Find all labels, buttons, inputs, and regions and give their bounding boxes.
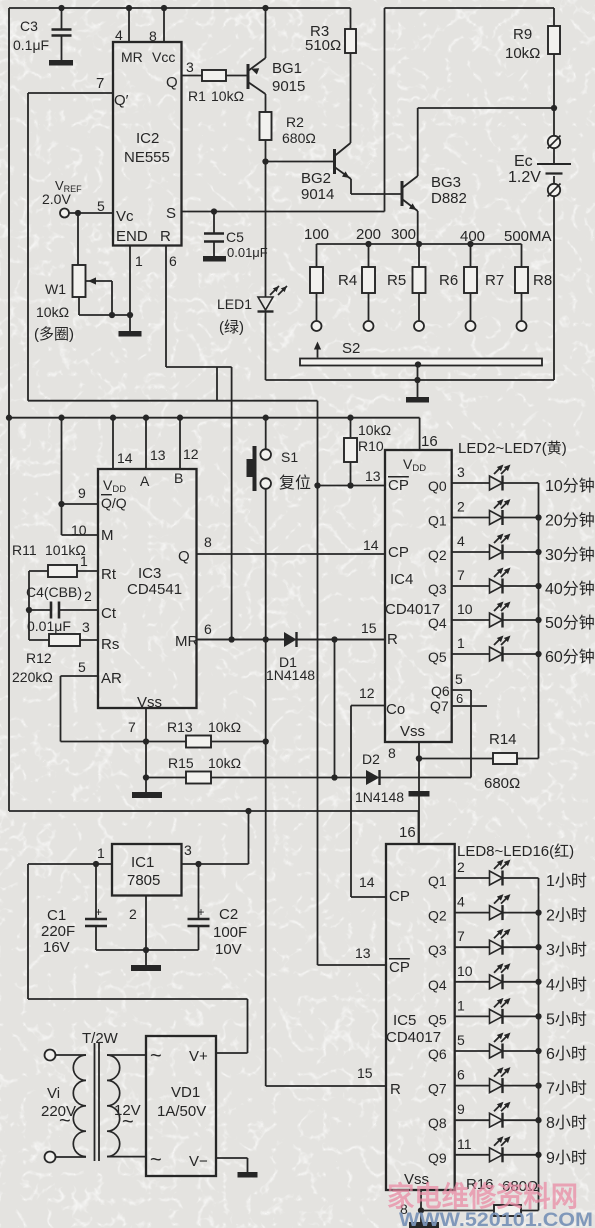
- svg-text:15: 15: [357, 1065, 373, 1081]
- svg-text:Q: Q: [166, 74, 178, 91]
- svg-text:C1: C1: [47, 907, 66, 924]
- svg-text:8: 8: [204, 534, 212, 550]
- svg-text:S1: S1: [281, 449, 298, 465]
- svg-text:R14: R14: [489, 731, 517, 748]
- svg-text:4小时: 4小时: [546, 976, 587, 994]
- svg-text:30分钟: 30分钟: [545, 546, 595, 564]
- svg-text:10kΩ: 10kΩ: [36, 304, 69, 320]
- svg-text:LED8~LED16(红): LED8~LED16(红): [457, 843, 574, 860]
- svg-text:Q/Q: Q/Q: [101, 495, 127, 511]
- svg-text:0.1μF: 0.1μF: [13, 37, 49, 53]
- svg-text:Q9: Q9: [428, 1150, 447, 1166]
- svg-text:C3: C3: [20, 18, 38, 34]
- svg-text:4: 4: [457, 533, 465, 549]
- svg-text:9014: 9014: [301, 186, 334, 203]
- svg-text:C2: C2: [219, 906, 238, 923]
- svg-text:S: S: [166, 205, 176, 222]
- svg-text:16: 16: [421, 433, 438, 450]
- svg-text:12: 12: [183, 446, 199, 462]
- svg-text:7: 7: [128, 719, 136, 735]
- svg-text:Vss: Vss: [137, 694, 162, 711]
- svg-text:R11: R11: [12, 542, 37, 558]
- svg-text:2: 2: [457, 859, 465, 875]
- svg-text:10分钟: 10分钟: [545, 477, 595, 495]
- svg-text:5: 5: [455, 671, 463, 687]
- svg-text:220kΩ: 220kΩ: [12, 669, 53, 685]
- svg-text:7805: 7805: [127, 872, 160, 889]
- svg-text:7: 7: [457, 928, 465, 944]
- svg-text:Q5: Q5: [428, 649, 447, 665]
- svg-text:14: 14: [363, 537, 379, 553]
- svg-text:400: 400: [460, 228, 485, 245]
- svg-text:7: 7: [457, 567, 465, 583]
- svg-text:3: 3: [186, 59, 194, 75]
- svg-text:CP: CP: [389, 888, 410, 905]
- svg-text:1: 1: [135, 253, 143, 269]
- svg-text:R6: R6: [439, 272, 458, 289]
- svg-text:16V: 16V: [43, 939, 70, 956]
- svg-text:V+: V+: [189, 1048, 208, 1065]
- svg-text:M: M: [101, 527, 114, 544]
- svg-text:Q6: Q6: [428, 1046, 447, 1062]
- svg-text:~: ~: [59, 1110, 71, 1132]
- svg-text:Q3: Q3: [428, 942, 447, 958]
- svg-text:14: 14: [359, 874, 375, 890]
- svg-text:Q2: Q2: [428, 547, 447, 563]
- svg-text:5: 5: [97, 198, 105, 214]
- svg-text:WWW.520101.COM: WWW.520101.COM: [399, 1209, 593, 1228]
- svg-text:R4: R4: [338, 272, 357, 289]
- svg-text:S2: S2: [342, 340, 360, 357]
- svg-text:16: 16: [399, 824, 416, 841]
- svg-text:8小时: 8小时: [546, 1114, 587, 1132]
- svg-text:680Ω: 680Ω: [282, 130, 316, 146]
- svg-text:8: 8: [388, 745, 396, 761]
- svg-text:~: ~: [150, 1045, 162, 1067]
- svg-text:2: 2: [84, 588, 92, 604]
- svg-text:15: 15: [361, 620, 377, 636]
- svg-text:+: +: [198, 905, 205, 919]
- svg-text:1小时: 1小时: [546, 872, 587, 890]
- svg-text:R2: R2: [286, 114, 304, 130]
- svg-text:Ec: Ec: [514, 153, 533, 170]
- svg-text:1: 1: [457, 997, 465, 1013]
- svg-text:4: 4: [457, 894, 465, 910]
- svg-text:500MA: 500MA: [504, 228, 552, 245]
- svg-text:9: 9: [457, 1101, 465, 1117]
- svg-text:LED1: LED1: [217, 296, 252, 312]
- svg-text:10: 10: [457, 963, 473, 979]
- svg-text:IC1: IC1: [131, 854, 154, 871]
- svg-text:LED2~LED7(黄): LED2~LED7(黄): [458, 440, 567, 457]
- svg-text:Vcc: Vcc: [152, 49, 175, 65]
- svg-text:R5: R5: [387, 272, 406, 289]
- svg-text:9015: 9015: [272, 78, 305, 95]
- svg-text:200: 200: [356, 226, 381, 243]
- svg-text:0.01μF: 0.01μF: [27, 618, 71, 634]
- svg-text:(绿): (绿): [219, 319, 244, 336]
- svg-text:R: R: [390, 1081, 401, 1098]
- svg-text:Rs: Rs: [101, 636, 119, 653]
- svg-text:13: 13: [150, 447, 166, 463]
- svg-text:1: 1: [457, 635, 465, 651]
- svg-text:Q7: Q7: [430, 698, 449, 714]
- svg-text:3: 3: [457, 464, 465, 480]
- svg-text:R15: R15: [168, 755, 194, 771]
- svg-text:2: 2: [129, 906, 137, 922]
- svg-text:CP: CP: [388, 477, 409, 494]
- svg-text:10: 10: [457, 601, 473, 617]
- svg-text:Q2: Q2: [428, 908, 447, 924]
- svg-text:Q3: Q3: [428, 581, 447, 597]
- svg-text:100: 100: [304, 226, 329, 243]
- svg-text:50分钟: 50分钟: [545, 614, 595, 632]
- svg-text:VD1: VD1: [171, 1084, 200, 1101]
- svg-text:Q1: Q1: [428, 513, 447, 529]
- svg-text:1A/50V: 1A/50V: [157, 1103, 206, 1120]
- svg-text:V−: V−: [189, 1153, 208, 1170]
- svg-text:40分钟: 40分钟: [545, 580, 595, 598]
- svg-text:4: 4: [115, 27, 123, 43]
- svg-text:1: 1: [80, 553, 88, 569]
- svg-text:R8: R8: [533, 272, 552, 289]
- svg-text:BG2: BG2: [301, 170, 331, 187]
- svg-text:Q5: Q5: [428, 1011, 447, 1027]
- svg-text:5: 5: [457, 1032, 465, 1048]
- svg-text:Q0: Q0: [428, 478, 447, 494]
- svg-text:5小时: 5小时: [546, 1010, 587, 1028]
- svg-text:+: +: [95, 905, 102, 919]
- svg-text:R1: R1: [188, 88, 206, 104]
- svg-text:6: 6: [204, 621, 212, 637]
- svg-text:Q1: Q1: [428, 873, 447, 889]
- svg-text:300: 300: [391, 226, 416, 243]
- svg-text:NE555: NE555: [124, 149, 170, 166]
- svg-text:7: 7: [96, 75, 104, 92]
- svg-text:Vc: Vc: [116, 208, 134, 225]
- svg-text:Q: Q: [178, 548, 190, 565]
- svg-text:10kΩ: 10kΩ: [505, 45, 540, 62]
- svg-text:10kΩ: 10kΩ: [208, 719, 241, 735]
- svg-text:3: 3: [184, 842, 192, 858]
- svg-text:IC3: IC3: [138, 565, 161, 582]
- svg-text:CD4017: CD4017: [386, 1029, 441, 1046]
- svg-text:D882: D882: [431, 190, 467, 207]
- svg-text:1.2V: 1.2V: [508, 169, 541, 186]
- svg-text:1N4148: 1N4148: [355, 789, 404, 805]
- svg-text:Q6: Q6: [431, 683, 450, 699]
- svg-text:Ct: Ct: [101, 605, 117, 622]
- svg-text:10: 10: [71, 522, 87, 538]
- svg-text:R7: R7: [485, 272, 504, 289]
- svg-text:A: A: [140, 473, 150, 489]
- svg-text:9: 9: [78, 485, 86, 501]
- svg-text:6: 6: [169, 253, 177, 269]
- svg-text:R10: R10: [358, 438, 384, 454]
- svg-text:10kΩ: 10kΩ: [208, 755, 241, 771]
- svg-text:220F: 220F: [41, 923, 75, 940]
- svg-text:510Ω: 510Ω: [305, 37, 341, 54]
- svg-text:8: 8: [149, 28, 157, 44]
- svg-text:IC2: IC2: [136, 130, 159, 147]
- svg-text:6: 6: [457, 1067, 465, 1083]
- svg-text:Vss: Vss: [400, 723, 425, 740]
- svg-text:C5: C5: [226, 229, 244, 245]
- svg-text:1: 1: [97, 845, 105, 861]
- svg-text:Q8: Q8: [428, 1115, 447, 1131]
- svg-text:R12: R12: [26, 650, 52, 666]
- svg-text:3小时: 3小时: [546, 941, 587, 959]
- svg-text:复位: 复位: [279, 474, 311, 492]
- svg-text:20分钟: 20分钟: [545, 512, 595, 530]
- svg-text:~: ~: [150, 1149, 162, 1171]
- svg-text:1N4148: 1N4148: [266, 667, 315, 683]
- svg-text:10kΩ: 10kΩ: [358, 422, 391, 438]
- svg-text:7小时: 7小时: [546, 1080, 587, 1098]
- svg-text:2: 2: [457, 499, 465, 515]
- svg-text:Vi: Vi: [47, 1085, 60, 1102]
- svg-text:10V: 10V: [215, 941, 242, 958]
- svg-text:END: END: [116, 228, 148, 245]
- svg-text:14: 14: [117, 450, 133, 466]
- svg-text:3: 3: [82, 619, 90, 635]
- svg-text:IC5: IC5: [393, 1012, 416, 1029]
- svg-text:~: ~: [122, 1111, 134, 1133]
- svg-text:R: R: [387, 631, 398, 648]
- svg-text:CP: CP: [388, 544, 409, 561]
- svg-text:MR: MR: [121, 49, 143, 65]
- svg-text:9小时: 9小时: [546, 1149, 587, 1167]
- svg-text:Q′: Q′: [114, 92, 129, 109]
- svg-text:IC4: IC4: [390, 571, 413, 588]
- svg-text:B: B: [174, 470, 183, 486]
- svg-text:R9: R9: [513, 26, 532, 43]
- svg-text:BG1: BG1: [272, 60, 302, 77]
- svg-text:0.01μF: 0.01μF: [227, 245, 268, 260]
- svg-text:R13: R13: [167, 719, 193, 735]
- svg-text:11: 11: [457, 1136, 472, 1152]
- svg-text:CP: CP: [389, 959, 410, 976]
- svg-text:2小时: 2小时: [546, 907, 587, 925]
- svg-text:6: 6: [456, 691, 463, 706]
- svg-text:5: 5: [78, 659, 86, 675]
- svg-text:2.0V: 2.0V: [42, 191, 71, 207]
- svg-text:Q4: Q4: [428, 615, 447, 631]
- svg-text:CD4541: CD4541: [127, 581, 182, 598]
- svg-text:100F: 100F: [213, 924, 247, 941]
- svg-text:家电维修资料网: 家电维修资料网: [387, 1180, 578, 1212]
- svg-text:Q4: Q4: [428, 977, 447, 993]
- svg-text:60分钟: 60分钟: [545, 648, 595, 666]
- svg-text:D2: D2: [362, 751, 380, 767]
- svg-text:(多圈): (多圈): [34, 326, 74, 343]
- svg-text:Q7: Q7: [428, 1081, 447, 1097]
- svg-text:R: R: [160, 228, 171, 245]
- svg-text:C4(CBB): C4(CBB): [26, 584, 82, 600]
- svg-text:13: 13: [355, 945, 371, 961]
- svg-text:T/2W: T/2W: [82, 1030, 119, 1047]
- svg-text:6小时: 6小时: [546, 1045, 587, 1063]
- svg-text:W1: W1: [45, 281, 66, 297]
- svg-text:13: 13: [365, 468, 381, 484]
- svg-text:AR: AR: [101, 670, 122, 687]
- svg-text:BG3: BG3: [431, 174, 461, 191]
- svg-text:Co: Co: [386, 701, 405, 718]
- svg-text:MR: MR: [175, 633, 198, 650]
- svg-text:680Ω: 680Ω: [484, 775, 520, 792]
- svg-text:12: 12: [359, 685, 375, 701]
- svg-text:Rt: Rt: [101, 566, 117, 583]
- svg-text:10kΩ: 10kΩ: [211, 88, 244, 104]
